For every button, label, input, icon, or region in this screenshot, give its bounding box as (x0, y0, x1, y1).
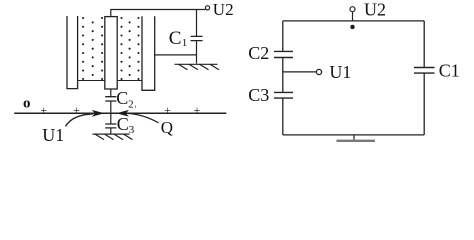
svg-text:U2: U2 (364, 0, 386, 20)
electrode right outer plate (142, 16, 155, 90)
svg-text:3: 3 (129, 124, 135, 136)
svg-text:C2: C2 (248, 43, 269, 63)
svg-text:C1: C1 (439, 61, 460, 81)
wire probe top to U2 terminal (111, 10, 206, 17)
electrode middle probe (105, 17, 117, 89)
stray mark after C2 subscript (134, 105, 136, 108)
wire probe bottom to C2 (110, 89, 112, 96)
left wire upper segment (282, 21, 284, 51)
wire down to C1 (196, 10, 198, 37)
wire C2 to node (110, 101, 112, 124)
dielectric stipple right band (120, 17, 139, 80)
dielectric stipple left band (82, 17, 103, 80)
capacitor C3 (circuit) (274, 92, 293, 98)
ground bar (circuit) (337, 140, 376, 142)
capacitor C1 (left diagram) (191, 36, 203, 40)
svg-text:U2: U2 (213, 0, 234, 19)
svg-text:+: + (164, 103, 171, 117)
ground (left diagram, top right) (175, 64, 220, 70)
ground stem (circuit) (353, 135, 355, 140)
svg-text:C: C (117, 114, 129, 134)
bottom wire (283, 134, 424, 136)
terminal U1 (circuit) (316, 69, 321, 74)
right wire upper segment (423, 21, 425, 67)
terminal U2 (left diagram) (205, 6, 209, 10)
stub wire to U1 terminal (283, 71, 317, 73)
capacitor C2 (left diagram) (105, 97, 116, 101)
svg-text:2: 2 (128, 98, 134, 110)
terminal U2 (circuit) (350, 7, 355, 12)
wire right electrode to ground rail (155, 54, 197, 56)
liquid surface line (14, 112, 226, 114)
leader arrow from U1 to node (66, 114, 94, 127)
svg-text:+: + (73, 103, 80, 117)
wire C3 to ground (110, 128, 112, 134)
capacitor C2 (circuit) (274, 51, 293, 57)
dielectric bottom boundary line (78, 80, 142, 82)
right wire lower segment (423, 73, 425, 135)
svg-text:+: + (40, 103, 47, 117)
svg-text:C3: C3 (248, 85, 269, 105)
svg-text:Q: Q (161, 118, 173, 137)
top wire (283, 20, 424, 22)
left wire middle segment (282, 58, 284, 93)
junction dot (350, 25, 354, 29)
stem to U2 terminal (352, 12, 354, 21)
wire C1 to ground (196, 41, 198, 64)
left wire lower segment (282, 98, 284, 135)
electrode left outer plate (67, 16, 78, 89)
leader arrow from Q to node (128, 114, 159, 123)
svg-text:U1: U1 (329, 62, 351, 82)
capacitor C1 (circuit) (414, 68, 435, 74)
svg-text:o: o (23, 95, 31, 111)
svg-text:C: C (116, 88, 128, 108)
capacitor C3 (left diagram) (105, 124, 116, 128)
ground (left diagram, bottom) (93, 134, 133, 140)
svg-text:C: C (169, 28, 182, 49)
svg-text:+: + (194, 103, 201, 117)
svg-text:U1: U1 (42, 125, 64, 142)
svg-text:1: 1 (182, 37, 188, 49)
